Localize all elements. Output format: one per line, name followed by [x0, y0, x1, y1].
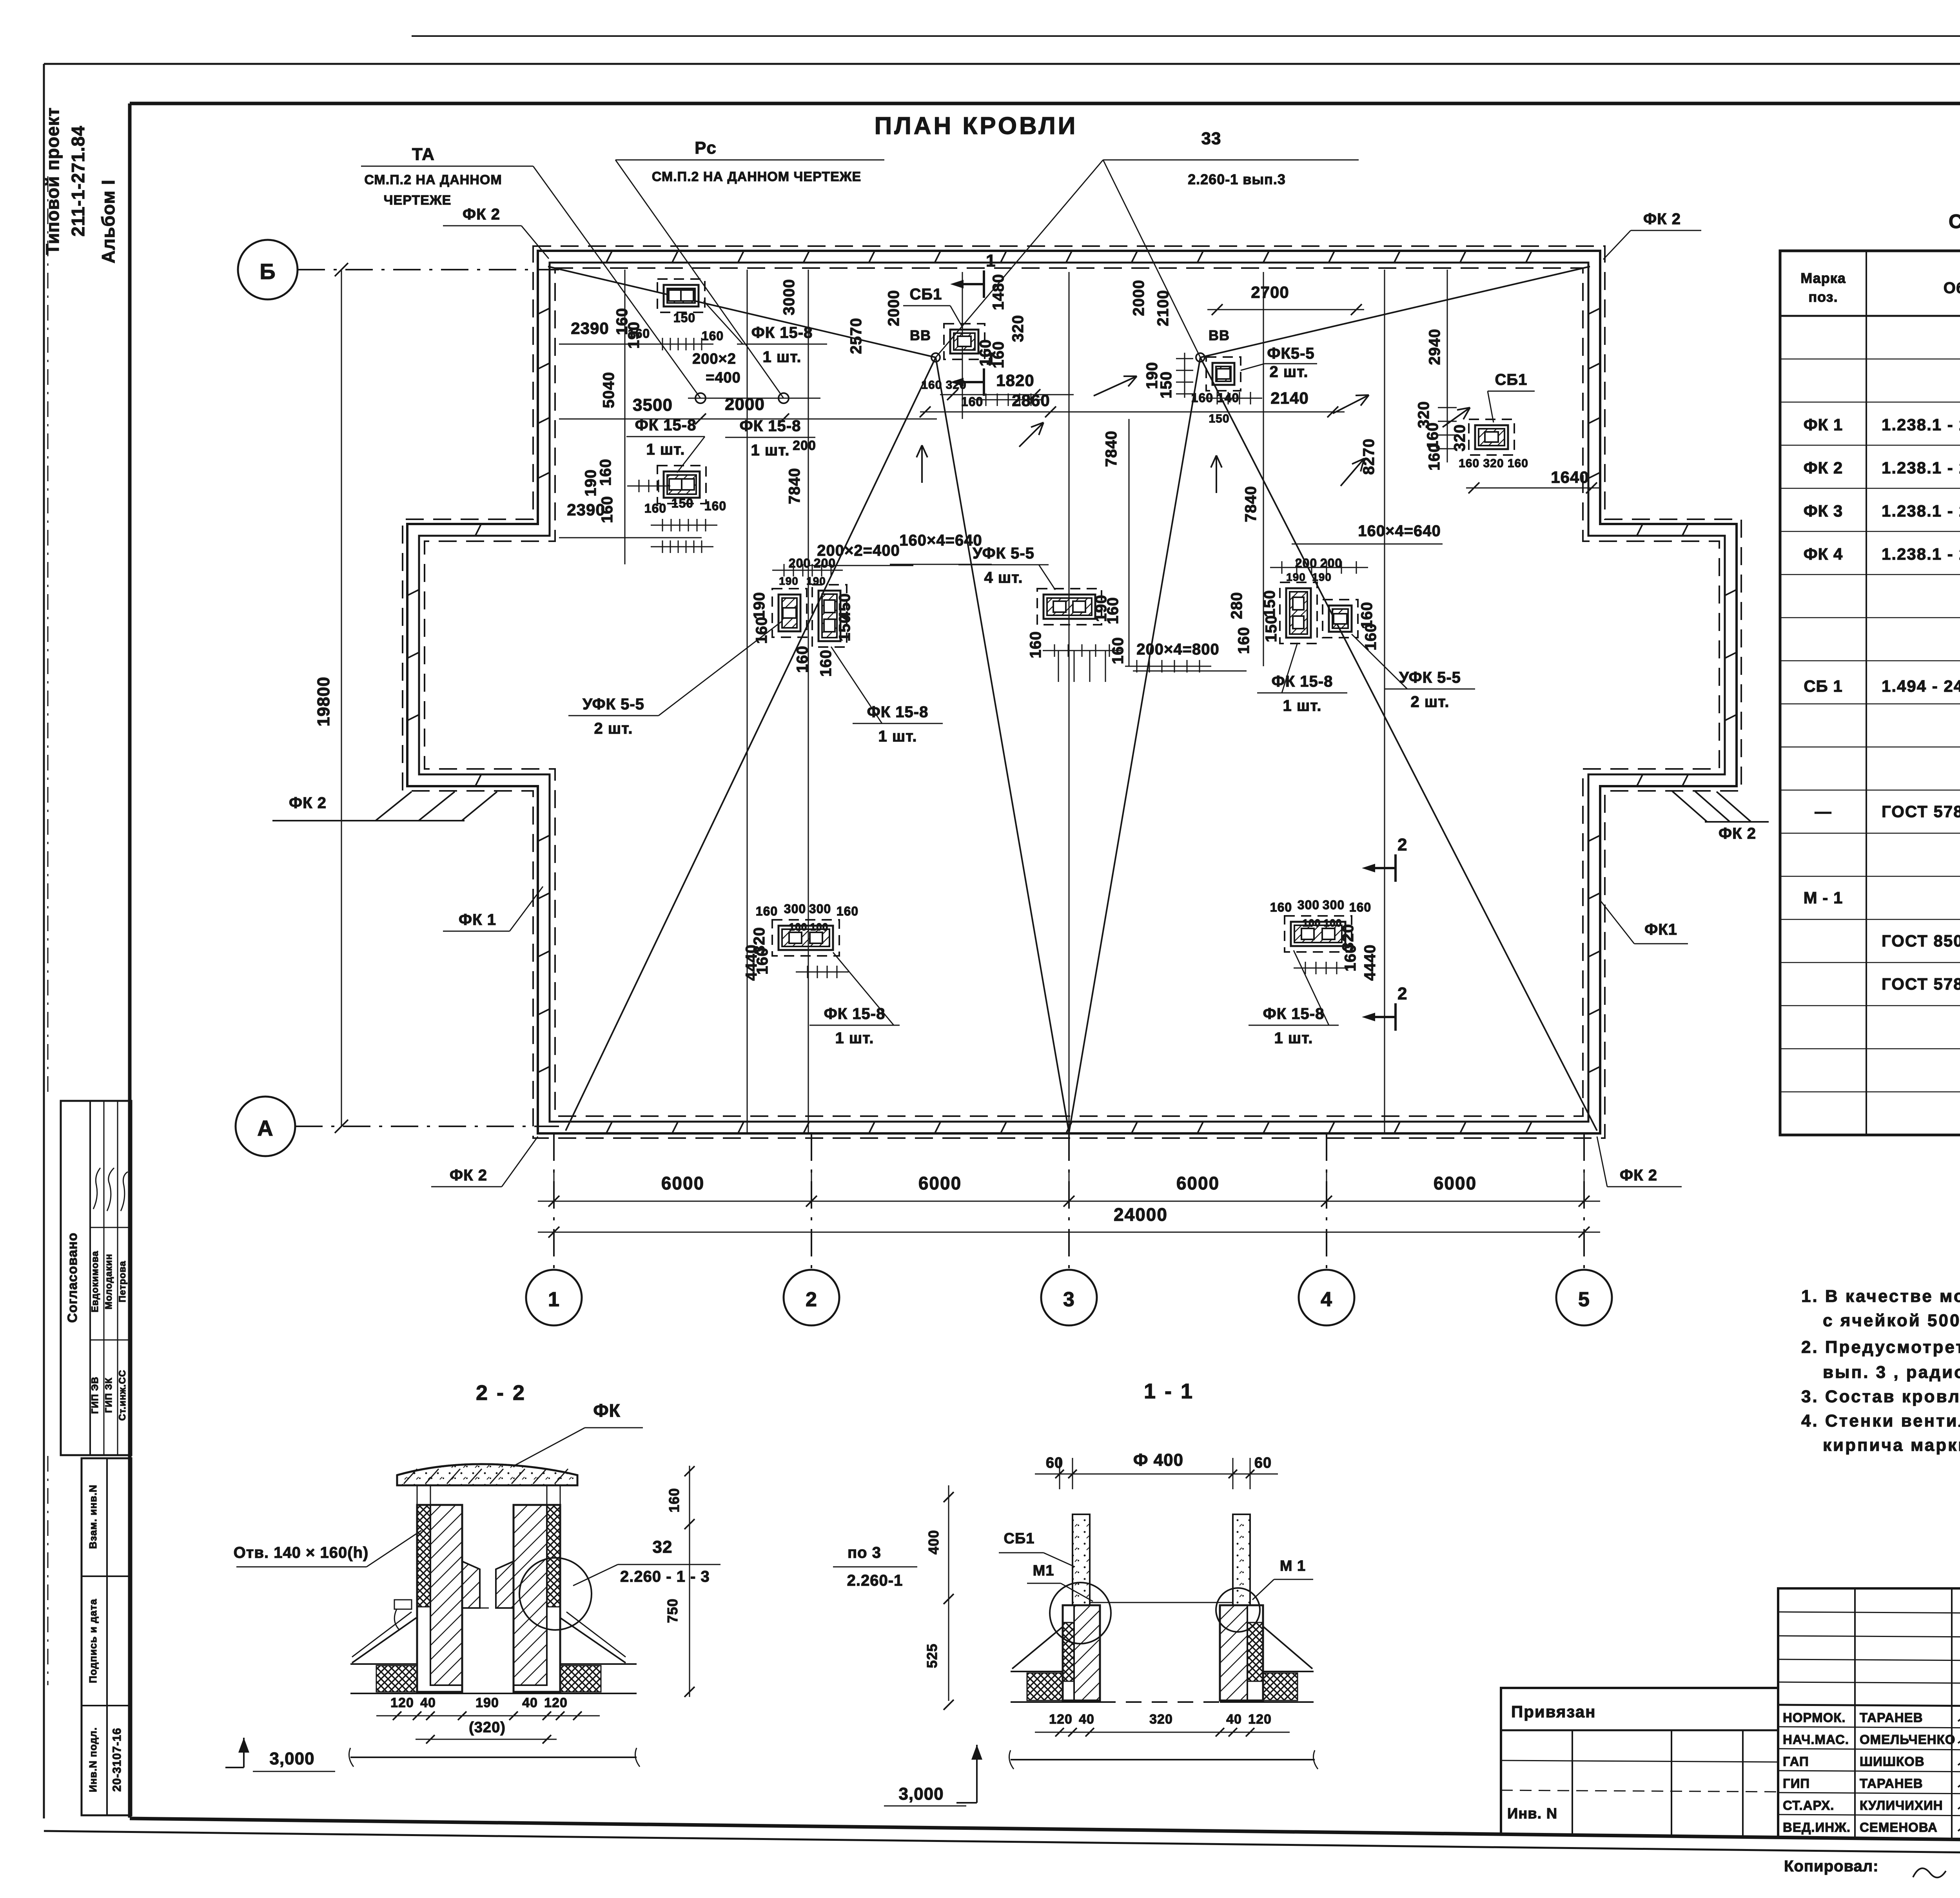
svg-text:200×4=800: 200×4=800 — [1136, 641, 1219, 658]
svg-text:300: 300 — [784, 902, 806, 916]
svg-text:СБ 1: СБ 1 — [1804, 677, 1843, 695]
svg-text:2940: 2940 — [1426, 329, 1443, 365]
svg-text:190: 190 — [751, 592, 768, 619]
svg-text:200: 200 — [1295, 556, 1317, 570]
svg-text:1 шт.: 1 шт. — [763, 348, 802, 366]
svg-text:ФК 15-8: ФК 15-8 — [740, 417, 801, 435]
svg-text:1: 1 — [986, 251, 996, 270]
svg-text:6000: 6000 — [1176, 1173, 1220, 1193]
svg-text:160: 160 — [961, 395, 983, 409]
svg-text:ФК 2: ФК 2 — [1620, 1167, 1657, 1184]
svg-text:ФК 15-8: ФК 15-8 — [1263, 1005, 1325, 1022]
svg-text:УФК 5-5: УФК 5-5 — [1399, 669, 1461, 686]
svg-text:40: 40 — [420, 1695, 436, 1710]
svg-text:2 шт.: 2 шт. — [594, 720, 633, 737]
svg-text:160: 160 — [1027, 631, 1044, 658]
svg-text:ФК 2: ФК 2 — [1643, 210, 1681, 228]
svg-text:1 шт.: 1 шт. — [1283, 697, 1322, 714]
svg-text:1: 1 — [986, 349, 996, 368]
svg-text:ФК: ФК — [593, 1400, 620, 1421]
svg-text:Типовой проект: Типовой проект — [42, 107, 63, 255]
svg-text:750: 750 — [664, 1598, 681, 1623]
svg-text:4 шт.: 4 шт. — [984, 569, 1023, 586]
svg-text:ВЕД.ИНЖ.: ВЕД.ИНЖ. — [1783, 1820, 1851, 1835]
svg-text:(320): (320) — [469, 1719, 506, 1736]
svg-text:5040: 5040 — [600, 372, 617, 408]
svg-text:1640: 1640 — [1551, 468, 1589, 486]
svg-text:СБ1: СБ1 — [910, 286, 942, 303]
svg-text:2: 2 — [1397, 984, 1407, 1003]
svg-text:150: 150 — [1209, 412, 1229, 425]
svg-text:Взам. инв.N: Взам. инв.N — [87, 1485, 99, 1549]
svg-text:2000: 2000 — [1130, 280, 1147, 316]
svg-text:1820: 1820 — [996, 371, 1034, 390]
svg-text:ФК 1: ФК 1 — [459, 911, 496, 928]
svg-text:1.238.1 - 2: 1.238.1 - 2 — [1882, 545, 1960, 563]
svg-text:2000: 2000 — [725, 395, 765, 414]
svg-text:4. Стенки вентиляционных шах: 4. Стенки вентиляционных шахт выложить и… — [1801, 1411, 1960, 1430]
svg-text:Рс: Рс — [695, 138, 717, 158]
svg-text:160: 160 — [628, 326, 650, 341]
svg-text:2: 2 — [806, 1288, 817, 1311]
svg-text:2570: 2570 — [848, 318, 865, 354]
svg-text:190: 190 — [475, 1695, 499, 1710]
svg-text:СЕМЕНОВА: СЕМЕНОВА — [1860, 1820, 1938, 1835]
svg-text:60: 60 — [1254, 1455, 1272, 1471]
svg-text:ТА: ТА — [412, 145, 435, 164]
svg-text:160: 160 — [837, 904, 858, 918]
svg-text:Обозначение: Обозначение — [1944, 279, 1960, 297]
svg-text:2390: 2390 — [571, 319, 609, 337]
svg-text:5: 5 — [1578, 1288, 1590, 1311]
svg-text:2000: 2000 — [885, 290, 902, 326]
svg-text:2.260 - 1 - 3: 2.260 - 1 - 3 — [620, 1568, 710, 1585]
svg-text:ТАРАНЕВ: ТАРАНЕВ — [1860, 1710, 1923, 1725]
svg-text:190: 190 — [1312, 571, 1332, 583]
svg-text:300: 300 — [809, 902, 831, 916]
svg-text:ЧЕРТЕЖЕ: ЧЕРТЕЖЕ — [384, 193, 452, 208]
svg-text:ФК 2: ФК 2 — [463, 206, 500, 223]
svg-text:ФК1: ФК1 — [1644, 921, 1677, 938]
svg-text:ТАРАНЕВ: ТАРАНЕВ — [1860, 1776, 1923, 1791]
svg-text:ФК 15-8: ФК 15-8 — [867, 703, 929, 721]
svg-text:А: А — [257, 1116, 273, 1140]
svg-text:160×4=640: 160×4=640 — [1358, 522, 1441, 540]
svg-text:40: 40 — [1226, 1712, 1242, 1727]
svg-text:Молодакин: Молодакин — [103, 1254, 114, 1309]
svg-text:ВВ: ВВ — [910, 327, 931, 343]
svg-text:ГОСТ 5781 - 82: ГОСТ 5781 - 82 — [1882, 975, 1960, 993]
svg-text:120: 120 — [390, 1695, 414, 1710]
svg-text:300: 300 — [1323, 898, 1345, 912]
svg-text:Подпись и дата: Подпись и дата — [87, 1599, 99, 1683]
svg-text:150: 150 — [1158, 371, 1175, 399]
svg-text:КУЛИЧИХИН: КУЛИЧИХИН — [1860, 1798, 1943, 1813]
svg-text:УФК 5-5: УФК 5-5 — [583, 696, 644, 713]
svg-text:160: 160 — [1349, 900, 1371, 914]
svg-text:1480: 1480 — [990, 274, 1007, 310]
svg-text:2 шт.: 2 шт. — [1411, 693, 1450, 711]
svg-text:Инв. N: Инв. N — [1507, 1806, 1557, 1822]
svg-text:М1: М1 — [1033, 1563, 1054, 1579]
svg-text:160 320 160: 160 320 160 — [1459, 457, 1528, 470]
svg-text:4: 4 — [1321, 1288, 1332, 1311]
svg-text:19800: 19800 — [314, 676, 333, 726]
svg-text:280: 280 — [1228, 592, 1245, 619]
svg-text:ГИП ЭВ: ГИП ЭВ — [90, 1376, 100, 1414]
svg-text:ФК 3: ФК 3 — [1804, 502, 1843, 520]
svg-text:ФК 2: ФК 2 — [1719, 825, 1756, 842]
svg-text:Копировал:: Копировал: — [1784, 1858, 1879, 1875]
svg-text:Петрова: Петрова — [117, 1261, 128, 1302]
svg-text:200: 200 — [1320, 556, 1342, 570]
svg-text:7840: 7840 — [1103, 431, 1120, 467]
svg-text:1.494 - 24, вып. 1: 1.494 - 24, вып. 1 — [1882, 677, 1960, 695]
svg-text:ШИШКОВ: ШИШКОВ — [1860, 1754, 1925, 1769]
svg-text:1 шт.: 1 шт. — [878, 728, 917, 745]
svg-text:525: 525 — [924, 1643, 940, 1668]
svg-text:Отв. 140 × 160(h): Отв. 140 × 160(h) — [234, 1544, 369, 1561]
svg-text:20-3107-16: 20-3107-16 — [111, 1728, 123, 1791]
svg-text:ФК 15-8: ФК 15-8 — [824, 1005, 886, 1022]
svg-text:Ст.инж.СС: Ст.инж.СС — [117, 1370, 128, 1421]
svg-text:ГИП ЗК: ГИП ЗК — [103, 1378, 114, 1413]
svg-text:160: 160 — [666, 1488, 682, 1512]
svg-text:33: 33 — [1201, 129, 1221, 148]
svg-text:7840: 7840 — [786, 468, 803, 504]
svg-text:Б: Б — [260, 259, 276, 284]
svg-text:160×4=640: 160×4=640 — [899, 532, 982, 549]
svg-text:ПЛАН КРОВЛИ: ПЛАН КРОВЛИ — [875, 112, 1078, 140]
svg-text:СМ.П.2 НА ДАННОМ ЧЕРТЕЖЕ: СМ.П.2 НА ДАННОМ ЧЕРТЕЖЕ — [652, 169, 861, 184]
svg-text:6000: 6000 — [661, 1173, 704, 1193]
svg-text:320: 320 — [1009, 315, 1027, 342]
svg-text:200: 200 — [793, 438, 816, 453]
svg-text:3,000: 3,000 — [898, 1784, 944, 1804]
svg-text:НАЧ.МАС.: НАЧ.МАС. — [1783, 1732, 1849, 1747]
svg-text:160: 160 — [794, 645, 811, 673]
svg-text:кирпича марки 100 на раств: кирпича марки 100 на растворе марки 50 . — [1823, 1436, 1960, 1455]
svg-text:Спецификация элементов к пл: Спецификация элементов к плану кровли — [1949, 210, 1960, 232]
svg-text:300: 300 — [1298, 898, 1319, 912]
svg-text:2700: 2700 — [1251, 283, 1289, 301]
svg-text:ГАП: ГАП — [1783, 1754, 1809, 1769]
svg-text:2.260-1: 2.260-1 — [847, 1572, 903, 1589]
svg-text:320: 320 — [1149, 1712, 1173, 1727]
svg-text:с ячейкой 500 × 500 , уложен: с ячейкой 500 × 500 , уложенную в цемент… — [1823, 1311, 1960, 1330]
svg-text:120: 120 — [544, 1695, 568, 1710]
svg-text:160: 160 — [702, 329, 724, 343]
svg-text:32: 32 — [653, 1537, 673, 1557]
svg-text:24000: 24000 — [1114, 1204, 1168, 1225]
svg-text:Ф 400: Ф 400 — [1133, 1450, 1183, 1470]
svg-text:160: 160 — [704, 499, 726, 513]
svg-text:3500: 3500 — [633, 395, 673, 415]
svg-text:=400: =400 — [706, 370, 741, 386]
svg-text:СМ.П.2 НА ДАННОМ: СМ.П.2 НА ДАННОМ — [364, 172, 502, 187]
svg-text:160: 160 — [644, 501, 666, 515]
svg-text:ФК 2: ФК 2 — [289, 794, 327, 812]
svg-text:ВВ: ВВ — [1209, 327, 1230, 343]
svg-text:1 шт.: 1 шт. — [835, 1030, 874, 1047]
svg-text:по 3: по 3 — [848, 1544, 881, 1561]
svg-text:2 - 2: 2 - 2 — [476, 1381, 526, 1405]
svg-text:160: 160 — [1235, 627, 1252, 654]
svg-text:150: 150 — [1263, 615, 1280, 642]
svg-text:3000: 3000 — [780, 279, 798, 315]
svg-text:150: 150 — [1261, 590, 1278, 617]
svg-text:200: 200 — [814, 556, 836, 570]
svg-text:ФК 15-8: ФК 15-8 — [1272, 673, 1333, 690]
svg-text:4440: 4440 — [1361, 944, 1379, 981]
svg-text:ФК 1: ФК 1 — [1804, 415, 1843, 434]
svg-text:40: 40 — [522, 1695, 538, 1710]
svg-text:2390: 2390 — [567, 500, 605, 519]
svg-text:2.260-1 вып.3: 2.260-1 вып.3 — [1188, 171, 1286, 187]
svg-text:ФК 2: ФК 2 — [1804, 459, 1843, 477]
svg-text:150: 150 — [836, 614, 853, 642]
svg-text:СТ.АРХ.: СТ.АРХ. — [1783, 1798, 1834, 1813]
svg-text:3. Состав кровли см. АС - 9: 3. Состав кровли см. АС - 9 . — [1801, 1387, 1960, 1406]
svg-text:М - 1: М - 1 — [1804, 888, 1843, 907]
svg-text:ФК 15-8: ФК 15-8 — [751, 324, 813, 341]
svg-text:Инв.N подл.: Инв.N подл. — [87, 1727, 99, 1792]
svg-text:190: 190 — [779, 575, 799, 587]
svg-text:2 шт.: 2 шт. — [1270, 363, 1308, 381]
svg-text:М 1: М 1 — [1280, 1558, 1306, 1574]
svg-text:ГИП: ГИП — [1783, 1776, 1810, 1791]
svg-text:160: 160 — [756, 904, 778, 918]
svg-text:60: 60 — [1046, 1455, 1063, 1471]
svg-text:160: 160 — [753, 616, 770, 644]
svg-text:Марка: Марка — [1800, 270, 1846, 286]
svg-text:Альбом I: Альбом I — [98, 179, 118, 263]
svg-text:120: 120 — [1248, 1712, 1272, 1727]
svg-text:Согласовано: Согласовано — [65, 1233, 80, 1323]
svg-text:160: 160 — [1104, 597, 1122, 624]
svg-text:ГОСТ 8509 - 72*: ГОСТ 8509 - 72* — [1882, 932, 1960, 950]
svg-text:2140: 2140 — [1270, 389, 1308, 407]
svg-text:ОМЕЛЬЧЕНКО: ОМЕЛЬЧЕНКО — [1860, 1732, 1955, 1747]
svg-text:—: — — [1815, 802, 1832, 821]
svg-text:ФК5-5: ФК5-5 — [1267, 345, 1314, 362]
svg-text:1 шт.: 1 шт. — [1274, 1030, 1313, 1047]
svg-text:160: 160 — [1342, 944, 1359, 972]
svg-text:6000: 6000 — [918, 1173, 962, 1193]
svg-text:Привязан: Привязан — [1511, 1702, 1596, 1721]
svg-text:200×2: 200×2 — [692, 351, 736, 367]
svg-text:160: 160 — [1426, 443, 1443, 471]
svg-text:320: 320 — [1451, 424, 1468, 451]
svg-text:160: 160 — [1270, 900, 1292, 914]
svg-text:УФК 5-5: УФК 5-5 — [973, 545, 1034, 562]
svg-text:1.238.1 - 2: 1.238.1 - 2 — [1882, 502, 1960, 520]
svg-text:ГОСТ 5781 - 82: ГОСТ 5781 - 82 — [1882, 802, 1960, 821]
svg-text:НОРМОК.: НОРМОК. — [1783, 1710, 1846, 1725]
svg-text:200: 200 — [789, 556, 811, 570]
svg-text:1: 1 — [548, 1288, 560, 1311]
svg-text:СБ1: СБ1 — [1004, 1530, 1035, 1547]
svg-text:6000: 6000 — [1434, 1173, 1477, 1193]
svg-text:СБ1: СБ1 — [1495, 371, 1528, 388]
svg-text:1 - 1: 1 - 1 — [1144, 1380, 1194, 1403]
svg-text:ФК 2: ФК 2 — [450, 1167, 487, 1184]
svg-text:ФК 4: ФК 4 — [1804, 545, 1843, 563]
svg-text:211-1-271.84: 211-1-271.84 — [68, 125, 88, 236]
svg-text:1 шт.: 1 шт. — [646, 441, 685, 458]
svg-text:160: 160 — [597, 459, 614, 486]
svg-text:160: 160 — [754, 947, 771, 975]
svg-text:160: 160 — [817, 649, 835, 677]
svg-text:1. В качестве молниезащиты: 1. В качестве молниезащиты принять сетку… — [1801, 1287, 1960, 1306]
svg-text:3: 3 — [1063, 1288, 1075, 1311]
svg-text:7840: 7840 — [1242, 486, 1259, 522]
svg-text:Евдокимова: Евдокимова — [90, 1251, 100, 1312]
svg-text:ФК 15-8: ФК 15-8 — [635, 417, 697, 434]
svg-text:1 шт.: 1 шт. — [751, 442, 790, 459]
svg-text:2. Предусмотреть установку т: 2. Предусмотреть установку телеантенны (… — [1801, 1338, 1960, 1357]
svg-text:8270: 8270 — [1360, 439, 1377, 475]
svg-text:3,000: 3,000 — [269, 1749, 314, 1768]
svg-text:190: 190 — [1286, 571, 1306, 583]
svg-text:400: 400 — [926, 1530, 942, 1554]
svg-text:2: 2 — [1397, 835, 1407, 854]
svg-text:120: 120 — [1049, 1712, 1073, 1727]
svg-text:40: 40 — [1079, 1712, 1094, 1727]
svg-text:1.238.1 - 2: 1.238.1 - 2 — [1882, 415, 1960, 434]
svg-text:поз.: поз. — [1808, 289, 1838, 305]
svg-text:вып. 3 , радиостойки ( Рс ): вып. 3 , радиостойки ( Рс ) - 2.190 - 1/… — [1823, 1363, 1960, 1382]
svg-text:1.238.1 - 2: 1.238.1 - 2 — [1882, 459, 1960, 477]
svg-text:2100: 2100 — [1154, 290, 1172, 326]
